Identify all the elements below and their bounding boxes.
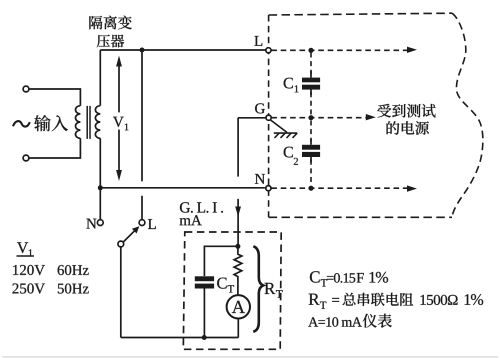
label N (switch contact) [86, 219, 96, 229]
junction dot on L row [308, 48, 313, 53]
switch S1 pole and blade (arrow pointing to L contact) [118, 226, 139, 247]
switch N contact [97, 220, 103, 226]
wire: transformer bottom to node N (bottom rail) [100, 187, 265, 189]
label 的电源 line2 [387, 121, 429, 135]
AC input terminal (top) [23, 86, 29, 92]
capacitor C1 leads [310, 71, 312, 95]
dashed box: torn wavy right edge [452, 13, 483, 217]
transformer T1 secondary winding [95, 106, 100, 139]
junction of CT lead on bottom return [202, 335, 207, 340]
wire: transformer secondary top to node L [100, 49, 265, 51]
junction on top wire (branch to switch L contact) [140, 48, 145, 53]
junction dot on G row [308, 115, 313, 120]
value text 仪表 (meter) [363, 314, 392, 328]
capacitor C1 [302, 78, 320, 90]
dashed wire: node N row to arrow [271, 185, 417, 191]
label V1 [113, 117, 124, 127]
earth ground at node G [270, 120, 297, 138]
wire: CT bottom lead [203, 289, 205, 338]
brace grouping RT (resistor + ammeter) [253, 246, 263, 331]
wire: junction to CT top [204, 246, 238, 276]
scan artifact line at bottom [2, 356, 498, 358]
wire: secondary top lead [99, 50, 101, 106]
voltage arrow V1 (double headed) [116, 56, 122, 182]
label C1 [284, 78, 293, 89]
capacitor CT [195, 276, 214, 288]
wire: node G to measuring circuit (hops over N wire, arrow down) [235, 118, 266, 247]
dashed box: G.L.I. measuring instrument [183, 232, 281, 349]
transformer T1 core [87, 106, 90, 139]
wire: vertical branch from top wire down to switch L contact (hops over N wire) [141, 50, 143, 220]
label V1 (source voltage, underlined) [17, 242, 28, 253]
value 250V 50Hz [12, 283, 44, 293]
dashed wire: node L to load (arrow) [271, 47, 417, 53]
value text 总串联电阻 (total series resistance) [343, 293, 414, 306]
value CT = 0.15 F 1% [310, 271, 320, 282]
wire: secondary bottom lead [99, 138, 101, 188]
AC input terminal (bottom) [23, 155, 29, 161]
wire: ammeter to bottom return [237, 319, 239, 338]
label L (switch contact) [148, 219, 156, 229]
label C2 [284, 147, 293, 158]
label RT [264, 283, 275, 294]
node G [266, 115, 271, 120]
value A = 10 mA meter [308, 317, 362, 326]
label 输入 (input) [34, 115, 68, 131]
junction dot on N row [308, 186, 313, 191]
junction on bottom rail (branch to switch N contact) [98, 185, 103, 190]
ammeter A [227, 295, 250, 318]
dashed box: top edge [269, 13, 452, 15]
wire: bottom return to meter branch [121, 337, 239, 339]
label 受到测试 (under test) line1 [377, 104, 435, 118]
node N [266, 186, 271, 191]
dashed box: equipment under test, left edge [268, 15, 270, 217]
resistor RT (zigzag) [234, 246, 242, 294]
capacitor C2 leads [310, 139, 312, 163]
wire: switch pole down to bottom return wire [120, 247, 122, 338]
node L [266, 48, 271, 53]
label 隔离变压器 line2 [97, 35, 124, 48]
capacitor C2 [302, 145, 320, 157]
label CT [217, 278, 226, 289]
label G. L. I. mA [180, 202, 223, 212]
label 隔离变压器 line1 (isolation transformer) [89, 16, 131, 30]
dashed wire: node G row to arrow [271, 114, 376, 120]
AC source symbol ~ [13, 121, 30, 126]
junction inside instrument (CT parallel RT) [235, 244, 240, 249]
dashed box: bottom edge [269, 216, 452, 218]
transformer T1 primary winding [76, 106, 81, 139]
value RT = total series resistance 1500 ohm 1% [309, 294, 320, 305]
wire: branch down to switch N contact [99, 188, 101, 220]
wire: bottom terminal to transformer primary [29, 138, 80, 158]
value 120V 60Hz [13, 265, 45, 275]
switch L contact [139, 220, 145, 226]
wire: top terminal to transformer primary [29, 89, 80, 106]
dashed vertical: C1/C2 string between L and N [310, 53, 312, 186]
